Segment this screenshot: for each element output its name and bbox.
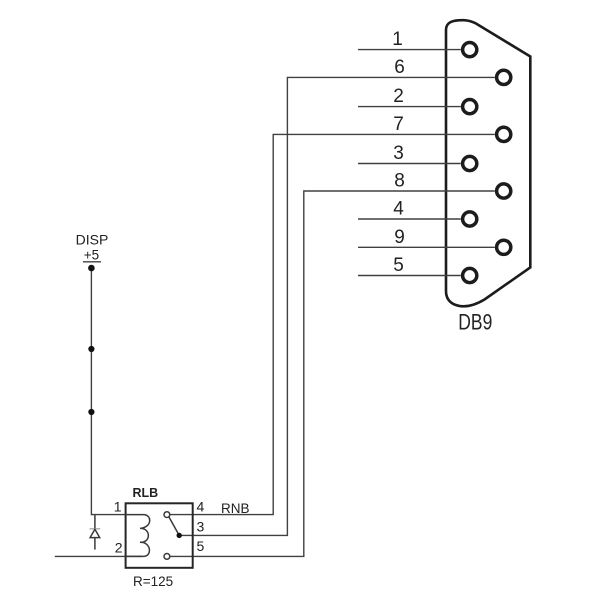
svg-text:5: 5 bbox=[197, 538, 205, 554]
wire DB9 pin8 to relay pin5 bbox=[170, 191, 495, 556]
junction dot mid 2 bbox=[88, 409, 94, 415]
svg-text:4: 4 bbox=[197, 499, 205, 515]
pin 9 hole bbox=[497, 240, 511, 254]
wire DISP +5 down to relay pin1 bbox=[91, 268, 125, 515]
svg-text:2: 2 bbox=[393, 86, 404, 107]
wire pin4 stub bbox=[358, 218, 461, 220]
pin 1 hole bbox=[463, 43, 477, 57]
svg-text:8: 8 bbox=[394, 171, 405, 192]
diode D1 bbox=[90, 515, 101, 550]
pin 4 hole bbox=[463, 212, 477, 226]
pin number labels bbox=[392, 29, 405, 276]
svg-text:2: 2 bbox=[115, 540, 123, 556]
pin 2 hole bbox=[463, 100, 477, 114]
svg-text:RLB: RLB bbox=[133, 486, 159, 500]
svg-text:R=125: R=125 bbox=[133, 574, 173, 589]
svg-text:RNB: RNB bbox=[221, 501, 250, 516]
wire DB9 pin6 to relay pin3 bbox=[181, 77, 495, 535]
relay switch common contact pin4 bbox=[164, 512, 170, 518]
pin 6 hole bbox=[497, 70, 511, 84]
svg-text:9: 9 bbox=[394, 227, 405, 248]
wire pin1 stub bbox=[358, 49, 461, 51]
pin 7 hole bbox=[497, 127, 511, 141]
svg-text:5: 5 bbox=[393, 255, 404, 276]
connector J1 DB9 shell outline bbox=[446, 20, 530, 306]
wire relay pin2 to left bbox=[55, 555, 142, 557]
wire DB9 pin7 to relay pin4 bbox=[170, 134, 495, 514]
+5 underline bar bbox=[83, 261, 101, 263]
svg-text:6: 6 bbox=[394, 57, 405, 78]
svg-text:3: 3 bbox=[197, 519, 205, 535]
junction dot under +5 bbox=[88, 265, 95, 272]
svg-text:DISP: DISP bbox=[76, 232, 109, 248]
connector J1 pin holes bbox=[463, 43, 511, 283]
relay contact pin5 bbox=[164, 554, 170, 560]
relay K1 RLB box bbox=[126, 503, 193, 568]
svg-text:3: 3 bbox=[393, 143, 404, 164]
pin 5 hole bbox=[463, 268, 477, 282]
junction dot mid 1 bbox=[88, 346, 94, 352]
relay contact dot pin3 bbox=[177, 533, 182, 538]
svg-text:+5: +5 bbox=[84, 248, 99, 263]
wire pin5 stub bbox=[358, 275, 461, 277]
wire pin9 stub bbox=[358, 246, 495, 248]
relay armature bbox=[169, 517, 179, 536]
svg-text:4: 4 bbox=[393, 199, 404, 220]
wire pin3 stub bbox=[358, 163, 461, 165]
pin 8 hole bbox=[497, 184, 511, 198]
svg-text:DB9: DB9 bbox=[458, 310, 492, 335]
wire pin2 stub bbox=[358, 106, 461, 108]
svg-text:7: 7 bbox=[393, 114, 404, 135]
pin 3 hole bbox=[463, 156, 477, 170]
svg-text:1: 1 bbox=[392, 29, 403, 50]
relay coil bbox=[126, 515, 150, 557]
svg-text:1: 1 bbox=[114, 499, 122, 515]
